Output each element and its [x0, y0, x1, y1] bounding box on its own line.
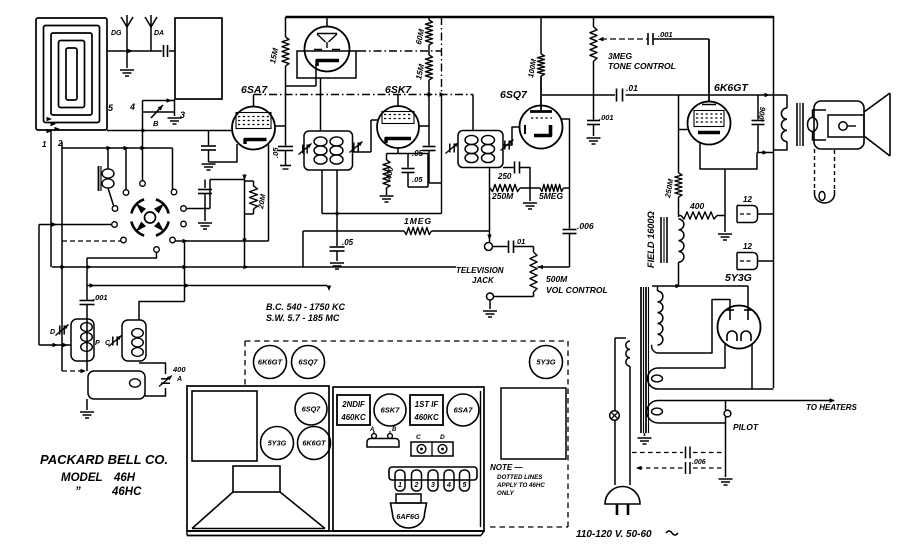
svg-text:01: 01 [517, 237, 525, 246]
svg-text:400: 400 [689, 201, 704, 211]
svg-text:6K6GT: 6K6GT [302, 439, 326, 448]
svg-text:ONLY: ONLY [497, 490, 515, 497]
resistor 15M (2nd) [425, 55, 432, 80]
jack 12 (a) [737, 206, 774, 223]
osc padder coil box [88, 371, 145, 399]
svg-text:NOTE —: NOTE — [490, 463, 523, 472]
svg-text:460KC: 460KC [340, 413, 366, 422]
wire 6SK7 grid [353, 120, 378, 152]
resistor 500M vol [530, 252, 537, 297]
wire x244 up [244, 177, 246, 267]
svg-text:5: 5 [463, 482, 467, 489]
svg-text:P: P [95, 340, 100, 347]
trimmer A padder [159, 376, 172, 387]
label .001 (osc) [93, 293, 108, 302]
resistor 100M [537, 17, 544, 111]
label 3 [180, 110, 185, 120]
chassis box left [187, 386, 329, 531]
label .05 (plate) [412, 149, 424, 158]
wire x39 [38, 225, 40, 346]
antenna DG [121, 15, 133, 51]
wire loop lead 1 [50, 131, 52, 267]
dial box [192, 391, 257, 461]
capacitor (grid bypass) [201, 131, 216, 163]
layout speaker [192, 466, 325, 529]
label 01 (jack) [517, 237, 525, 246]
capacitor .001 (6SQ7) [587, 121, 600, 137]
wire y345 to D [39, 343, 71, 347]
wire plate line 6SQ7 [542, 93, 787, 97]
wire pilot [725, 401, 727, 478]
label 110-120V [576, 529, 678, 540]
wire IF1 sec bottom [322, 170, 442, 215]
svg-text:1ST IF: 1ST IF [415, 400, 439, 409]
label PACKARD BELL CO. [40, 452, 168, 467]
svg-text:6SQ7: 6SQ7 [500, 89, 528, 101]
layout tube 6SA7 [447, 394, 479, 426]
oscillator coil (RF) [99, 148, 115, 206]
svg-text:.001: .001 [93, 293, 108, 302]
IF transformer 1 [304, 131, 353, 170]
capacitor .001 (tone) [648, 33, 653, 45]
tube 5Y3G [718, 306, 761, 349]
label BC range [266, 302, 346, 312]
ground (shield) [168, 118, 182, 124]
wire cath x725 [724, 169, 726, 232]
label 60M [414, 28, 426, 45]
label C [105, 340, 111, 347]
speaker leads (dashed) [815, 149, 835, 190]
label D [50, 329, 55, 336]
svg-text:5Y3G: 5Y3G [268, 439, 287, 448]
label 6SA7 [241, 84, 268, 96]
wire core gnd [644, 433, 646, 436]
wire 250M to field [678, 197, 680, 217]
wire coil to gnd [86, 399, 88, 410]
wire cathode B+ [751, 345, 753, 390]
wire cap to pot [514, 247, 534, 253]
capacitor .001 (osc) [80, 300, 95, 372]
label 2 [57, 139, 63, 148]
wire loop lead 2 [61, 142, 63, 371]
wire contact 156 [87, 252, 157, 258]
capacitor (ant series) [164, 45, 168, 57]
wire V1 output (dash) [358, 50, 442, 52]
label 12 (a) [743, 195, 752, 204]
ground (grid bypass) [202, 164, 216, 170]
svg-text:1MEG: 1MEG [404, 216, 432, 226]
resistor 3MEG tone [590, 17, 597, 120]
label TONE CONTROL [608, 61, 676, 71]
wire x184 to C [184, 286, 186, 302]
label SW range [266, 313, 340, 323]
svg-text:.05: .05 [271, 147, 280, 158]
label 6SK7 [385, 84, 412, 96]
label .05 (6SA7) [271, 147, 280, 158]
trimmers C D (layout) [411, 434, 453, 456]
wire pot bottom [494, 296, 534, 298]
wire 1MEG right [432, 230, 490, 232]
label 6SQ7 [500, 89, 528, 101]
wire 250 to cath [520, 168, 531, 189]
svg-text:.001: .001 [599, 113, 614, 122]
ground (det) [523, 203, 537, 209]
resistor 250M (field) [675, 173, 682, 197]
wire 15M(2) bottom [428, 80, 430, 95]
wire V1 to IF1 [320, 78, 322, 131]
tube 6SK7 [377, 95, 419, 149]
svg-text:D: D [440, 434, 445, 441]
wire band sw top [143, 98, 176, 102]
svg-text:6AF6G: 6AF6G [396, 512, 420, 521]
label 5 [108, 103, 114, 113]
wire x268 [268, 143, 270, 241]
wire field bottom [678, 262, 680, 286]
label P [95, 340, 100, 347]
capacitor .05 (cath) [402, 154, 429, 188]
wire 6SQ7 diode line [562, 119, 570, 229]
svg-text:B.C. 540 - 1750 KC: B.C. 540 - 1750 KC [266, 302, 346, 312]
svg-text:C: C [416, 434, 421, 441]
svg-text:12: 12 [743, 242, 752, 251]
wire screen feed [679, 95, 688, 173]
wire B+ top [286, 16, 774, 19]
trimmer B [151, 105, 163, 118]
label 15M [268, 47, 280, 64]
label 6K6GT [714, 82, 749, 94]
transformer primary+cord [615, 338, 630, 485]
capacitor .006 (det) [563, 230, 577, 268]
wire plate 2 loop [652, 300, 730, 354]
field coil 1600 [661, 217, 684, 263]
junction arrows x244 [242, 175, 246, 245]
svg-text:DA: DA [154, 30, 164, 37]
label 5Y3G [725, 272, 752, 284]
antenna DA [145, 15, 157, 51]
layout tube 5Y3G (top) [530, 346, 563, 379]
shield box (tuning unit) [175, 18, 222, 99]
capacitor .006 (out) [752, 95, 765, 153]
trimmer IF2 right [500, 140, 513, 151]
wire x87 down [86, 258, 88, 300]
band switch rotor [131, 199, 168, 235]
wire V1 plate out [356, 50, 358, 52]
wire drop x126 [125, 148, 127, 190]
resistor 400 (field) [679, 212, 726, 219]
wire antenna bus [107, 49, 175, 53]
capacitor (sw bypass 2) [198, 180, 212, 222]
svg-text:3: 3 [431, 482, 435, 489]
winding 5V (T1) [648, 344, 774, 389]
svg-text:TELEVISION: TELEVISION [456, 266, 504, 275]
svg-text:110-120 V. 50-60: 110-120 V. 50-60 [576, 529, 652, 540]
resistor 5MEG [540, 184, 564, 191]
wire IF2 sec return [487, 168, 491, 243]
label 250M (field) [663, 178, 675, 200]
wire trimmer B [143, 111, 175, 113]
layout tube 6SQ7 (top) [292, 346, 325, 379]
wire osc B+ feed [87, 283, 327, 287]
label TO HEATERS [806, 403, 857, 412]
svg-text:FIELD 1600Ω: FIELD 1600Ω [646, 211, 656, 268]
layout 1STIF box [410, 395, 443, 425]
wire 6K6 plate loop [700, 143, 774, 169]
tube 6K6GT [688, 39, 731, 145]
wire padder [139, 363, 166, 396]
osc coil D box [71, 319, 94, 361]
svg-text:A: A [369, 427, 374, 433]
trimmer IF1 left [298, 144, 311, 155]
trimmer IF1 right [349, 142, 362, 153]
resistor 250M (det) [490, 184, 520, 191]
pilot lamp circle [724, 410, 731, 417]
resistor 1MEG [404, 227, 432, 234]
svg-text:2NDIF: 2NDIF [341, 400, 365, 409]
svg-text:6SA7: 6SA7 [241, 84, 268, 96]
wire 6SK7 plate [419, 125, 429, 127]
loop antenna L1 [36, 18, 107, 133]
label note line 4 [497, 490, 515, 497]
terminal strip (layout) [389, 467, 477, 491]
arrow down (to text) [327, 286, 331, 292]
svg-text:PILOT: PILOT [733, 422, 759, 432]
capacitor 250 [515, 162, 520, 174]
label .001 (6SQ7) [599, 113, 614, 122]
resistor 60M [425, 20, 432, 45]
osc coil C box [122, 320, 146, 361]
tone tap arrow [598, 37, 648, 41]
svg-text:.006: .006 [692, 459, 706, 466]
svg-text:6SQ7: 6SQ7 [298, 358, 318, 367]
svg-text:TONE CONTROL: TONE CONTROL [608, 61, 676, 71]
tube V1 (1st det) [305, 17, 350, 72]
svg-text:6SA7: 6SA7 [454, 406, 474, 415]
wire 5MEG right [564, 187, 570, 189]
wire 15M top [285, 17, 287, 37]
label 250M (det) [491, 191, 514, 201]
label .05 (IF1) [342, 238, 354, 247]
trimmer D [55, 325, 68, 336]
label TELEVISION [456, 266, 504, 275]
wire 60M top [428, 17, 430, 20]
svg-text:S.W. 5.7 - 185 MC: S.W. 5.7 - 185 MC [266, 313, 340, 323]
svg-text:2: 2 [414, 482, 419, 489]
label .01 [626, 83, 638, 93]
svg-text:.05: .05 [412, 175, 423, 184]
wire AVC to IF2 [472, 95, 474, 131]
wire B+ vertical [773, 16, 775, 388]
svg-text:A: A [176, 376, 182, 383]
terminal circle (vol gnd) [487, 293, 494, 300]
label 400 (padder) [172, 365, 186, 374]
label MODEL 46H [61, 472, 136, 484]
capacitor .01 [617, 89, 623, 102]
svg-text:250M: 250M [491, 191, 514, 201]
wire term to gnd [489, 300, 491, 309]
wire DG to ground [126, 51, 128, 68]
layout tube 6SQ7 [295, 393, 327, 425]
tube 6SQ7 [520, 76, 563, 149]
label 4 [129, 102, 135, 112]
wire C top [139, 302, 185, 321]
svg-text:5MEG: 5MEG [539, 191, 563, 201]
layout tube 6SK7 [374, 394, 406, 426]
wire 60M-15M join [428, 45, 430, 55]
ground (sw byp2) [198, 223, 212, 229]
ground (6K6 cath) [718, 234, 732, 240]
svg-text:6SQ7: 6SQ7 [302, 405, 321, 414]
chassis base [187, 531, 485, 536]
wire switch feed [62, 146, 173, 150]
label JACK [472, 276, 495, 285]
power transformer T1 (HV) [641, 286, 663, 433]
svg-text:1: 1 [398, 482, 402, 489]
resistor 400 (6SK7) [383, 154, 390, 196]
label 400 (field) [689, 201, 704, 211]
svg-text:500M: 500M [546, 274, 568, 284]
capacitor .05 (IF1) [330, 214, 345, 262]
label 100M [526, 58, 538, 79]
label note line 2 [497, 474, 543, 481]
svg-text:460KC: 460KC [413, 413, 439, 422]
label note line 3 [496, 482, 545, 489]
junction arrow [440, 92, 446, 96]
wire 6SA7 plate right [275, 125, 286, 127]
svg-text:250: 250 [497, 172, 512, 181]
wire tone to 6K6 grid [653, 39, 709, 102]
label .001 (tone) [658, 30, 673, 39]
wire IF2 to 6SQ7 grid [503, 127, 520, 145]
capacitor .05 (6SK7 plate) [423, 95, 442, 184]
label VOL CONTROL [546, 285, 608, 295]
label 500M [546, 274, 568, 284]
wire IF1 pri bottom [336, 170, 338, 214]
svg-text:4: 4 [129, 102, 135, 112]
wire AVC bus bottom [52, 265, 456, 269]
svg-text:5Y3G: 5Y3G [725, 272, 752, 284]
ground (osc) [80, 412, 94, 418]
svg-text:”: ” [75, 486, 81, 498]
svg-text:B: B [153, 119, 159, 128]
speaker plug [815, 190, 835, 203]
jack circle (TV) [485, 243, 493, 251]
ground (vol) [483, 311, 497, 317]
label A (padder) [176, 376, 182, 383]
wire contact right [186, 180, 244, 209]
wire loop to 6SA7 grid [107, 128, 232, 132]
wire contact 172 right [175, 239, 268, 243]
wire AVC vertical (dash) [441, 17, 443, 214]
line switch [610, 411, 620, 421]
tube 6SA7 [232, 95, 275, 150]
wire 20M top [245, 181, 254, 186]
resistor 15M [282, 37, 289, 66]
svg-text:TO HEATERS: TO HEATERS [806, 403, 857, 412]
svg-text:6K6GT: 6K6GT [714, 82, 749, 94]
ground (.05 IF1) [330, 263, 344, 269]
power plug [605, 487, 640, 516]
resistor 20M [250, 186, 258, 209]
svg-text:B: B [392, 427, 397, 433]
svg-text:.05: .05 [412, 149, 424, 158]
label .006 (out) [756, 106, 768, 123]
wire 15M bottom [285, 66, 287, 95]
wire cathode (tube V1) [286, 64, 317, 86]
svg-text:.001: .001 [658, 30, 673, 39]
label DA [154, 30, 164, 37]
label 1MEG [404, 216, 432, 226]
wire x184 [184, 241, 186, 286]
label 250 [497, 172, 512, 181]
svg-text:4: 4 [446, 482, 451, 489]
svg-text:12: 12 [743, 195, 752, 204]
label B [153, 119, 159, 128]
svg-text:JACK: JACK [472, 276, 495, 285]
label 1 [42, 140, 47, 149]
svg-text:1: 1 [42, 140, 47, 149]
IF transformer 2 [458, 131, 503, 168]
label 3MEG [608, 51, 632, 61]
capacitor .006 (line a) [632, 447, 722, 459]
trimmer IF2 left [445, 143, 458, 154]
svg-text:46H: 46H [113, 472, 136, 484]
svg-text:MODEL: MODEL [61, 472, 103, 484]
note box [501, 388, 566, 459]
wire 20M bottom [245, 209, 254, 214]
capacitor .006 (line b) [636, 462, 725, 474]
svg-text:APPLY TO 46HC: APPLY TO 46HC [496, 482, 545, 489]
svg-text:6SK7: 6SK7 [381, 406, 401, 415]
label 400 (6SK7) [384, 166, 395, 182]
ground (6SK7 cath) [380, 196, 394, 202]
wire dash osc [62, 369, 86, 373]
label 12 (b) [743, 242, 752, 251]
chassis box right [333, 387, 484, 531]
svg-text:DOTTED LINES: DOTTED LINES [497, 474, 543, 481]
label 15M (2nd) [414, 63, 426, 80]
wire vol tap [538, 265, 570, 269]
layout 2NDIF box [337, 395, 370, 425]
svg-text:6K6GT: 6K6GT [258, 358, 284, 367]
speaker SP1 [814, 93, 890, 156]
svg-text:46HC: 46HC [111, 486, 142, 498]
layout tube 5Y3G [261, 427, 294, 460]
layout tube 6K6GT (top) [254, 346, 287, 379]
switch contacts [112, 181, 187, 253]
svg-text:DG: DG [111, 30, 122, 37]
ground (pilot) [719, 479, 733, 485]
label 5MEG [539, 191, 563, 201]
dashed box (46HC) [245, 341, 568, 527]
capacitor 01 (jack) [509, 241, 514, 254]
ground (core) [638, 438, 652, 444]
svg-text:.006: .006 [577, 221, 594, 231]
wire dash contact [62, 240, 121, 242]
svg-text:5Y3G: 5Y3G [536, 358, 555, 367]
label NOTE [490, 463, 523, 472]
ground (.001) [587, 138, 601, 144]
label 46HC [75, 486, 142, 498]
trimmer C [108, 336, 121, 347]
svg-text:3: 3 [180, 110, 185, 120]
wire drop x142 [142, 101, 144, 181]
wire shield to ground [174, 99, 176, 116]
layout tube 6K6GT [298, 427, 331, 460]
output transformer T2 [774, 95, 827, 150]
wire cap to cathode [209, 144, 238, 162]
svg-text:PACKARD BELL CO.: PACKARD BELL CO. [40, 452, 168, 467]
wire 6SK7 cathode [387, 148, 429, 154]
